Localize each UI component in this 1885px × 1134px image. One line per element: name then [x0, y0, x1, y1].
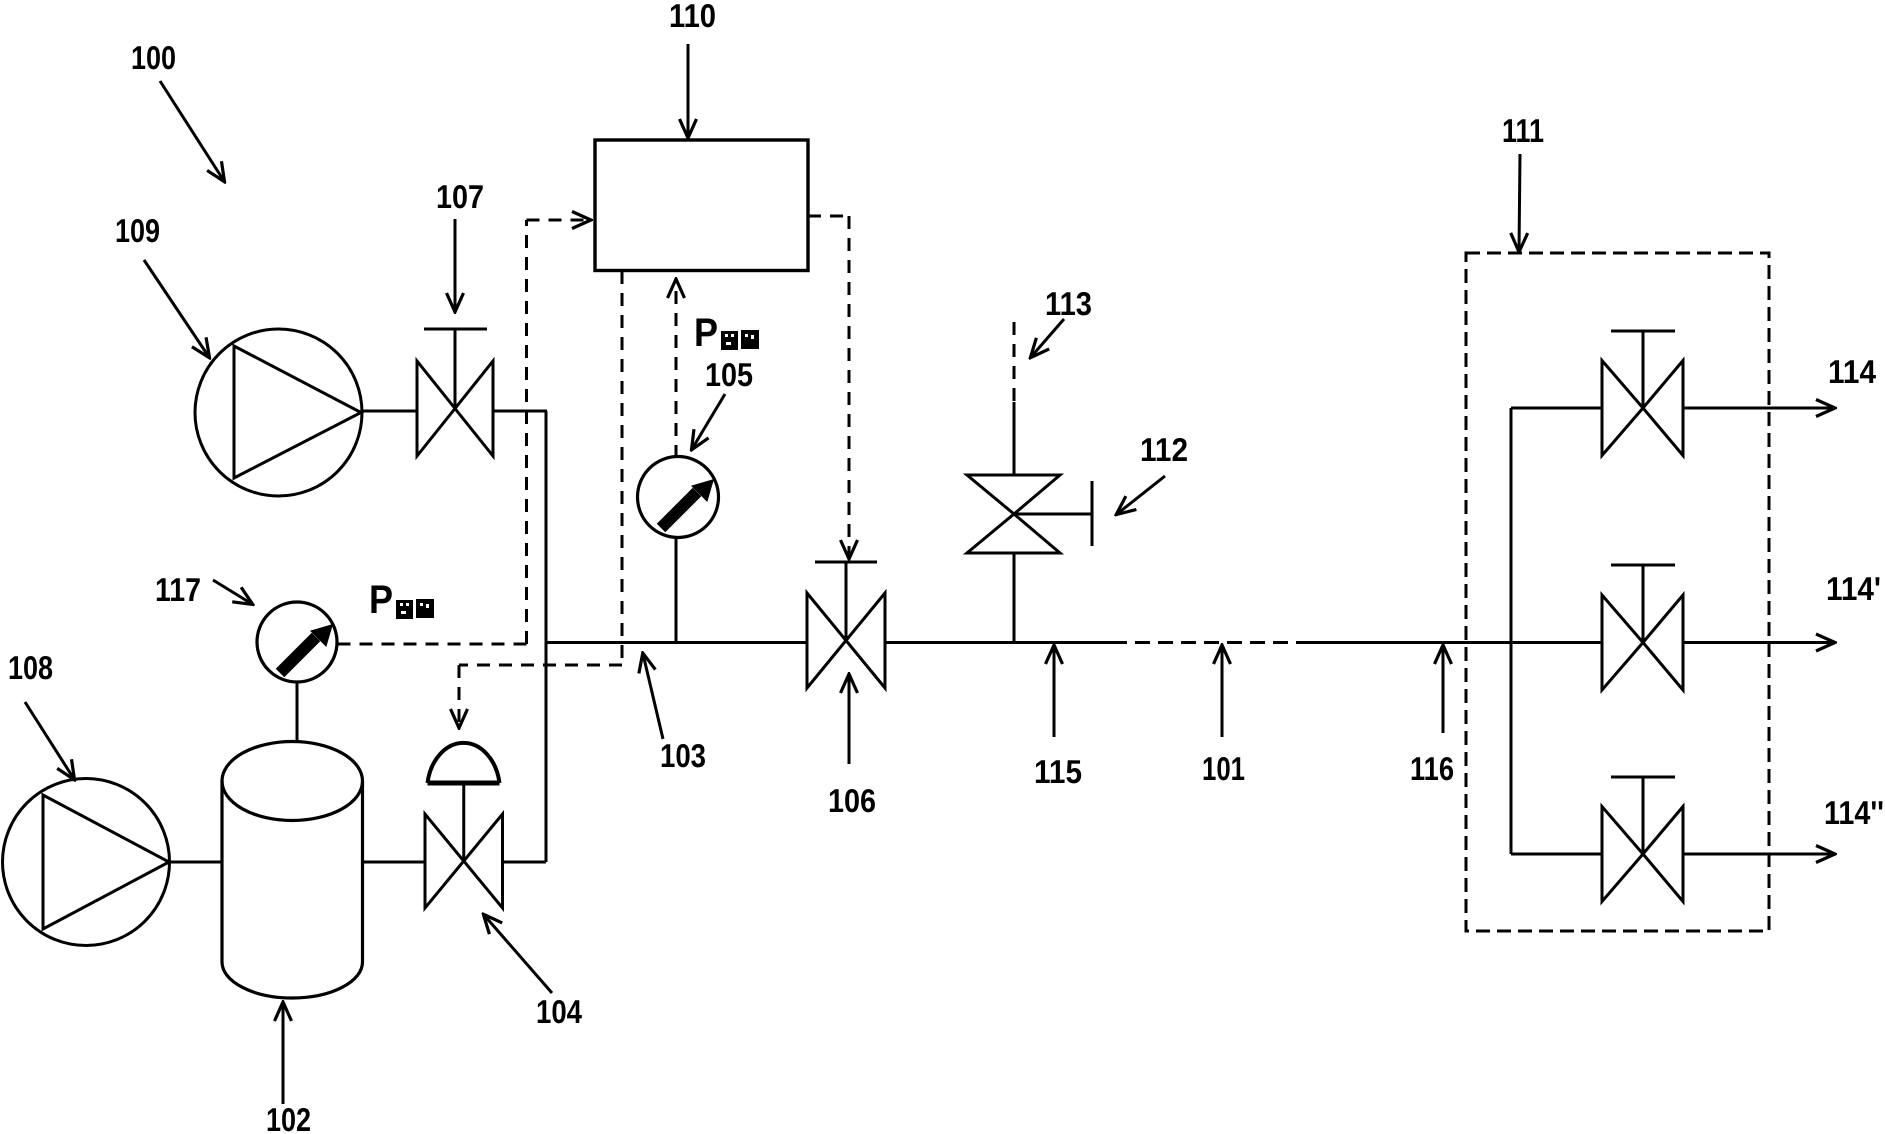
svg-text:106: 106 [828, 782, 876, 819]
svg-text:115: 115 [1034, 753, 1082, 790]
pipe valve104 outlet [503, 861, 547, 864]
pump 109 [195, 329, 362, 496]
svg-text:114'': 114'' [1824, 794, 1884, 831]
pressure gauge 105 [638, 457, 719, 538]
label 113 [1045, 285, 1092, 322]
leader arrow 115 [1053, 646, 1056, 737]
label 103 [660, 737, 706, 774]
pipe vertical riser x546 [545, 411, 548, 862]
pipe tank to valve104 [363, 861, 426, 864]
label 107 [436, 178, 484, 215]
label 106 [828, 782, 876, 819]
svg-text:100: 100 [131, 39, 176, 76]
manifold vertical pipe [1510, 408, 1513, 854]
leader arrow 102 [282, 1003, 285, 1104]
svg-text:114': 114' [1826, 570, 1881, 607]
outlet arrow 114' [1683, 641, 1834, 644]
pipe valve107 outlet [493, 410, 547, 413]
label 101 [1202, 750, 1245, 787]
outlet arrow 114 [1683, 407, 1834, 410]
svg-text:P: P [369, 578, 393, 622]
svg-text:117: 117 [155, 571, 201, 608]
pressure gauge 117 [257, 602, 337, 682]
pipe valve112 to main line [1013, 553, 1016, 643]
leader arrow 109 [144, 260, 209, 357]
svg-text:112: 112 [1140, 431, 1188, 468]
svg-text:104: 104 [536, 993, 583, 1030]
label 108 [8, 649, 53, 686]
label 111 [1502, 112, 1544, 149]
label 105 [705, 356, 753, 393]
label 112 [1140, 431, 1188, 468]
gauge 117 stem [296, 682, 299, 742]
pump 108 [3, 779, 170, 946]
svg-text:103: 103 [660, 737, 706, 774]
valve 106 [807, 562, 885, 688]
pseudo CJK subscript 管道 [721, 330, 759, 350]
svg-text:105: 105 [705, 356, 753, 393]
tank 102 [222, 742, 363, 999]
dashed signal line gauge105 to box bottom [675, 280, 678, 458]
label 104 [536, 993, 583, 1030]
label 114 [1828, 353, 1877, 390]
leader arrow 105 [692, 394, 725, 449]
main pipeline between valve106 and dashed section [885, 641, 1112, 644]
label 115 [1034, 753, 1082, 790]
leader arrow 113 [1031, 319, 1064, 357]
dashed control line box bottom to valve104 dome [459, 271, 622, 727]
leader arrow 101 [1221, 646, 1224, 737]
label 117 [155, 571, 201, 608]
leader arrow 116 [1442, 646, 1445, 733]
gauge 105 stem to main line [675, 538, 678, 643]
relief valve 112 [967, 475, 1092, 553]
svg-text:110: 110 [669, 0, 716, 34]
pipe pump109 to valve107 [361, 410, 417, 413]
valve 107 [417, 329, 493, 456]
outlet arrow 114'' [1683, 853, 1834, 856]
label 114' [1826, 570, 1881, 607]
svg-text:107: 107 [436, 178, 484, 215]
svg-text:111: 111 [1502, 112, 1544, 149]
dashed enclosure 111 [1466, 253, 1769, 931]
vent line 113 dashed top [1013, 322, 1016, 402]
main pipeline solid right section [1310, 641, 1602, 644]
controller box 110 [595, 140, 808, 271]
leader arrow 108 [25, 702, 74, 779]
svg-text:116: 116 [1410, 750, 1454, 787]
svg-text:108: 108 [8, 649, 53, 686]
svg-text:109: 109 [115, 212, 160, 249]
control valve 104 [425, 743, 503, 908]
label P pipe (P管道) [694, 311, 718, 355]
label 114'' [1824, 794, 1884, 831]
pipe pump108 to tank [169, 861, 222, 864]
leader arrow 107 [454, 219, 457, 311]
svg-text:P: P [694, 311, 718, 355]
svg-text:101: 101 [1202, 750, 1245, 787]
valve 114' branch middle [1602, 565, 1683, 690]
leader arrow 104 [484, 915, 552, 993]
leader arrow 100 [160, 81, 224, 181]
bottom branch pipe [1511, 853, 1602, 856]
leader arrow 106 [848, 675, 851, 764]
label 116 [1410, 750, 1454, 787]
valve 114 branch top [1602, 331, 1683, 456]
label P vessel (P容器) [369, 578, 393, 622]
dashed control line box right to valve106 [808, 216, 849, 558]
leader arrow 111 [1519, 154, 1520, 251]
leader arrow 103 [643, 654, 663, 739]
pseudo CJK subscript 容器 [396, 599, 434, 619]
dashed control line into box left (from P vessel gauge 117) [338, 220, 591, 644]
label 110 [669, 0, 716, 34]
vent line 113 solid [1013, 402, 1016, 475]
svg-text:113: 113 [1045, 285, 1092, 322]
valve 114'' branch bottom [1602, 777, 1683, 902]
main pipeline 101 solid left section [546, 641, 807, 644]
top branch pipe [1511, 407, 1602, 410]
main pipeline dashed middle section [1112, 641, 1310, 644]
svg-text:102: 102 [266, 1101, 311, 1134]
leader arrow 117 [213, 580, 252, 604]
label 100 [131, 39, 176, 76]
leader arrow 110 [687, 44, 690, 137]
leader arrow 112 [1117, 476, 1165, 514]
svg-text:114: 114 [1828, 353, 1877, 390]
label 102 [266, 1101, 311, 1134]
label 109 [115, 212, 160, 249]
